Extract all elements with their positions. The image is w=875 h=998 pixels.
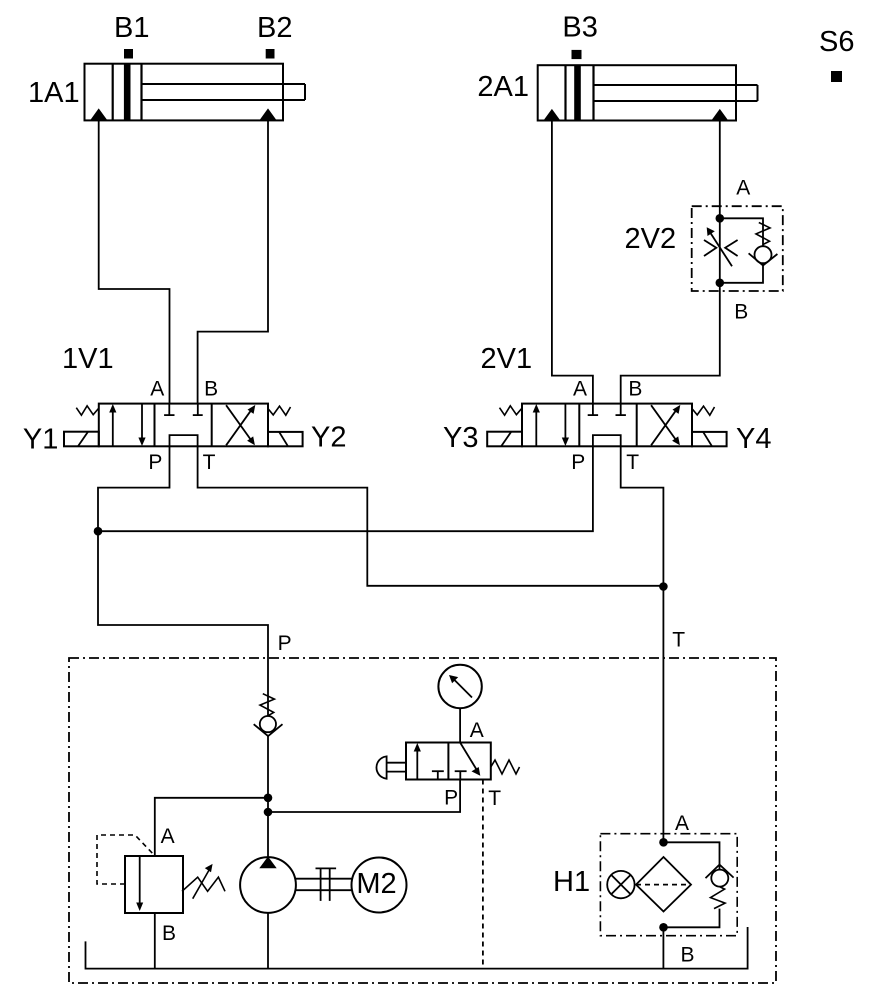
svg-text:A: A <box>161 825 175 848</box>
svg-text:2V1: 2V1 <box>481 343 533 375</box>
svg-text:T: T <box>488 787 501 810</box>
svg-text:A: A <box>150 378 164 401</box>
svg-text:B: B <box>734 301 748 324</box>
svg-text:Y2: Y2 <box>311 422 346 454</box>
svg-text:S6: S6 <box>819 26 854 58</box>
svg-text:Y4: Y4 <box>736 423 771 455</box>
svg-text:P: P <box>148 451 162 474</box>
svg-text:T: T <box>203 451 216 474</box>
svg-text:B2: B2 <box>257 12 292 44</box>
svg-text:A: A <box>736 177 750 200</box>
svg-text:B3: B3 <box>562 12 597 44</box>
svg-text:B: B <box>681 944 695 967</box>
svg-text:2V2: 2V2 <box>625 223 677 255</box>
svg-text:P: P <box>571 451 585 474</box>
svg-text:B: B <box>162 922 176 945</box>
svg-text:T: T <box>626 451 639 474</box>
svg-text:1V1: 1V1 <box>62 343 114 375</box>
svg-text:A: A <box>573 378 587 401</box>
svg-text:B1: B1 <box>114 12 149 44</box>
svg-text:P: P <box>278 632 292 655</box>
svg-text:Y1: Y1 <box>23 424 58 456</box>
svg-text:B: B <box>628 378 642 401</box>
svg-text:B: B <box>204 378 218 401</box>
svg-text:H1: H1 <box>553 866 590 898</box>
svg-text:Y3: Y3 <box>443 422 478 454</box>
svg-text:A: A <box>470 719 484 742</box>
svg-text:T: T <box>672 629 685 652</box>
svg-text:M2: M2 <box>356 868 396 900</box>
svg-text:A: A <box>675 812 689 835</box>
svg-text:P: P <box>444 787 458 810</box>
svg-text:1A1: 1A1 <box>28 77 80 109</box>
svg-text:2A1: 2A1 <box>477 71 529 103</box>
